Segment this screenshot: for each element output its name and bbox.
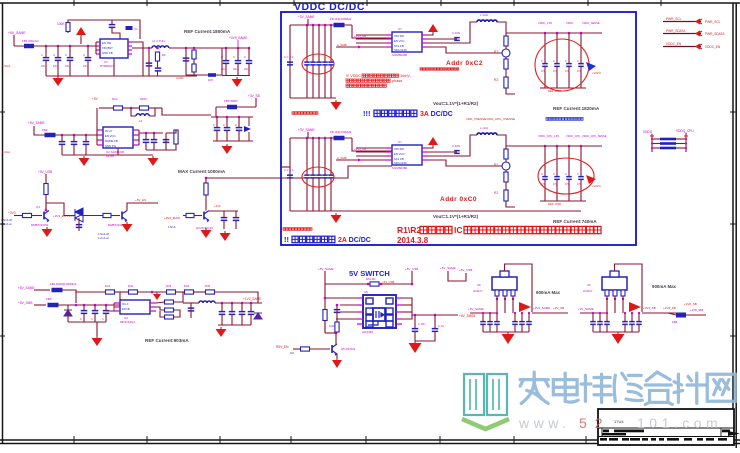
wire CVDDQ0 left [652,138,660,140]
transistor Q5 enable [332,344,337,356]
regulator U8 body (SOT-223) [492,271,517,290]
inductor L201 [136,114,149,116]
svg-text:U7: U7 [398,27,402,31]
wire D res row 5 [194,291,206,293]
wire en input [293,348,300,350]
label Cout0 2 [541,173,543,176]
wire U2 out bus [138,130,140,145]
label MAX current B [178,169,226,174]
capacitor C105 input [85,58,92,61]
capacitor Cout2 2 [566,177,572,180]
pin U1 left y47 [386,46,392,48]
capacitor Cout0 1 [542,64,548,67]
capacitor Cout1 2 [554,177,560,180]
junction 1 cap3 [324,24,327,27]
wire incap0 9 bot [592,324,594,332]
label C110 [221,55,223,59]
svg-text:EN FB: EN FB [122,307,130,311]
note addr 2 [440,196,477,203]
svg-text:REF Current:1820mA: REF Current:1820mA [553,106,600,111]
note sw blue [290,351,294,355]
capacitor Cout0 2 [542,177,548,180]
cjk note r1 line2 [346,79,390,82]
junction 2 cap3 [324,137,327,140]
resistor R462 [165,315,174,319]
label Cbst 1 [452,31,460,35]
wire FB return [194,74,222,76]
svg-text:EN VCC: EN VCC [394,39,405,43]
svg-text:A_SMB: A_SMB [337,43,347,47]
label Cout3 1 [577,60,579,63]
varistor VR 1 [502,49,510,57]
label R2 2 [494,191,498,195]
svg-text:C: C [553,60,555,63]
pin U2 right y39 [422,151,428,153]
wire 1 cap0 top [306,25,308,62]
label U2 refdes [106,150,125,154]
junction SW8 [335,332,338,335]
wire D gnd rail left [68,321,106,323]
svg-text:EN SW: EN SW [102,41,112,45]
junction C2a [205,177,208,180]
wire outcap2 2 bot [568,179,570,201]
pin U8 leg1 [495,290,499,296]
svg-text:AO4435: AO4435 [362,330,373,334]
wire incap2 8 top [496,313,498,322]
junction 2 cap4 [330,137,333,140]
capacitor Cin1 9 [597,322,603,325]
pin U4 right y303 [150,302,156,304]
wire outcap1 1 top [556,33,558,64]
wire 1 cap4 top [330,25,332,62]
wire 1 sda in [356,42,386,44]
label C111 [233,55,235,59]
net VDDQ_CPU label [676,129,694,133]
svg-text:L1 4.7UH: L1 4.7UH [152,39,165,43]
label C502 [418,322,425,326]
label AGND A [176,76,184,80]
ferrite bead FB101 [126,26,133,30]
label Cout0 1 [541,60,543,63]
wire outcap1 8 bot [521,324,523,332]
svg-text:PWR_SDATA: PWR_SDATA [705,32,725,36]
resistor R2 1 [504,59,508,69]
junction 2 cap0 [306,137,309,140]
wire 2 left rail [289,138,291,211]
title 5V SWITCH [349,269,390,278]
label R41 [105,284,111,288]
pin arrow EN 2 [358,159,362,162]
ferrite bead FB401 [52,288,63,293]
wire Q5 collector [335,333,337,345]
pin U1 left y43 [386,42,392,44]
svg-text:www.: www. [518,415,570,431]
ellipse marker output caps 2 [538,158,594,194]
pin U2 left y43 [386,155,392,157]
capacitor C103 input [55,58,62,61]
wire A bottom rail2 [143,75,197,77]
wire U8 output [532,312,568,314]
svg-text:Addr 0xC2: Addr 0xC2 [446,60,483,67]
svg-text:VDDC DC/DC: VDDC DC/DC [294,1,365,13]
ferrite bead FB402 [48,303,59,308]
net +3V3 EN label [8,211,16,215]
wire capA0 lower leg [45,60,47,76]
capacitor CVDDQ2 (bar) [660,147,676,150]
ground arrow Q2 [122,222,133,232]
cjk bottom left red note s1 [292,112,318,115]
wire capBc0 top [216,117,218,128]
svg-text:Q3 PDTC143: Q3 PDTC143 [196,226,213,230]
pin U1 right y46 [128,45,132,47]
wire capB2 bot [85,144,87,155]
wire R46c to cap [160,311,165,317]
label FB 2 [330,130,352,134]
wire 1 cap3 bot [324,65,326,98]
wire outcap0 2 top [544,146,546,177]
wire en base link [310,348,331,350]
junction A4 [87,45,90,48]
resistor R104 divider bottom [192,64,196,72]
label Cout1 2 [553,173,555,176]
junction A11 [248,47,251,50]
wire capB out1 bot [153,142,155,150]
label C111v [233,67,238,71]
label U1 pins in [102,41,112,45]
wire capBc1 top [226,117,228,128]
svg-text:+3V_SAME: +3V_SAME [298,128,315,132]
junction SW1 [367,283,370,286]
net output label 9 [643,306,656,310]
junction B3 [73,134,76,137]
resistor R502 on rail [323,310,327,321]
wire U4 sw to coil [183,302,199,304]
ferrite bead FB102 on input [24,44,34,49]
junction U8 leg1 [496,298,498,300]
watermark char zi [645,372,672,404]
wire capC20 bot [223,220,225,229]
wire sw left rail [324,271,326,333]
ferrite bead FB201 [45,133,56,138]
wire R503 top [336,319,338,322]
svg-text:FB 1K@100MHZ: FB 1K@100MHZ [330,17,352,21]
svg-text:0402: 0402 [140,97,147,101]
wire B out gnd [146,144,176,150]
label C112 [244,55,246,59]
wire U4 out1 [156,302,165,303]
svg-text:FB 1K@100MHZ: FB 1K@100MHZ [330,130,352,134]
wire divider 2 [505,146,507,149]
capacitor C400 [81,311,88,314]
resistor R305 top [204,183,208,195]
big red note ic [454,225,463,235]
wire incap0 8 top [482,313,484,322]
capacitor C220 cluster [214,128,221,131]
svg-text:R45: R45 [205,284,211,288]
junction 9 ic2 [606,312,608,314]
capacitor Cin2 2 [316,175,322,178]
pin U9 leg2 [613,290,617,296]
label Cout2v 1 [565,70,570,73]
label U4 pins [122,302,129,306]
title block bottom cells [600,438,727,441]
wire incap2 9 bot [606,324,608,332]
svg-text:100K: 100K [57,22,65,26]
label C112v [244,67,249,71]
svg-text:+1V8_SBF: +1V8_SBF [690,308,704,312]
wire capB out0 top [145,133,147,140]
transistor Q3 [204,211,209,223]
wire R46 link [174,292,184,302]
wire CVDDQ2 left [652,147,660,149]
pin U8 leg2 [503,290,507,296]
wire C501 legs [336,305,338,319]
svg-text:10U: 10U [41,64,46,68]
capacitor C102 input [43,58,50,61]
pin U1 left y50 [96,49,100,51]
probe arrow 1 [586,62,596,71]
wire gnd rail 8 [483,331,529,333]
wire capBc1 bot [226,130,228,141]
junction out 1 3 [580,32,583,35]
wire divider5 2 [506,201,515,207]
capacitor Cin0 2 [304,175,310,178]
junction D33 [250,302,253,305]
capacitor C411 out [219,312,226,315]
label U1 pins3 [394,44,404,48]
pin U1 right y39 [422,38,428,40]
label Cout3 2 [577,173,579,176]
wire capA3 lower leg [87,60,89,76]
junction SW6 [414,314,417,317]
pin U5 right y319 [396,318,402,320]
svg-text:R44: R44 [184,284,190,288]
pin U9 leg3 [621,290,625,296]
capacitor C212 [163,140,170,143]
svg-text:REF:1V05: REF:1V05 [548,202,561,206]
capacitor Cin0 9 [590,322,596,325]
svg-text:L 1UH: L 1UH [480,13,488,17]
junction B4 [85,134,88,137]
junction D11 [94,304,97,307]
label FB102 [22,39,40,43]
net +3V_SB label [248,94,260,98]
label R101 value [57,22,65,26]
junction out 1 2 [568,32,571,35]
svg-text:C: C [233,55,235,59]
pin U1 right y35 [422,34,428,36]
pin U5 right y312 [396,311,402,313]
note left edge current 1 [2,64,10,68]
ground arrow B left [79,156,90,166]
capacitor C414 out [248,312,255,315]
wire A out gnd rail [222,75,250,77]
pin U5 left y298 [357,297,363,299]
capacitor C402 [103,311,110,314]
svg-text:C: C [223,123,225,127]
label C110v [221,67,226,71]
transistor Q1 [44,211,49,223]
wire U9 input [580,312,607,314]
label R1 1 [494,50,498,54]
wire C2 caps rail [209,210,238,212]
wire capBc2 bot [238,130,240,141]
capacitor Cout2 9 [636,322,642,325]
wire D res row 2 [115,291,129,293]
U5 internal pad squares [366,298,393,327]
junction U9 leg3 [622,298,624,300]
svg-text:+1V8_SB: +1V8_SB [684,302,697,306]
wire outcap2 1 top [568,33,570,64]
svg-text:VDDQ_CPU: VDDQ_CPU [676,129,694,133]
junction D31 [231,302,234,305]
wire 2 cap0 bot [306,178,308,211]
wire capA0 upper leg [45,46,47,58]
wire R203 legs [166,130,176,133]
wire 1 cap4 bot [330,65,332,98]
pin arrow EN 1 [358,46,362,49]
svg-text:!!!: !!! [363,109,371,118]
note red 3 lines section 1 [346,74,361,78]
capacitor CVDDQ1 (bar) [660,142,676,145]
wire D out gnd rail [218,324,251,326]
junction 8 ic1 [489,312,491,314]
wire 2 cap1 top [312,138,314,175]
label U9 part [583,289,593,293]
pin U2 right y43 [422,155,428,157]
capacitor C211 out B [151,140,158,143]
resistor R201 [114,106,123,110]
svg-text:Vout=1.1V*(1+R1/R2): Vout=1.1V*(1+R1/R2) [433,101,479,106]
wire C108 legs [185,48,187,75]
wire bst cap 2 [428,151,457,153]
ground arrow C2 caps [220,231,231,241]
note C blue 2lines b [1,222,13,226]
ground arrow D left [92,336,103,346]
label R503 [329,324,335,328]
wire divider3 2 [505,170,507,172]
resistor R42 [129,290,138,294]
svg-text:900mA Max: 900mA Max [536,290,561,295]
label Q1 [36,205,40,209]
svg-text:47U: 47U [565,183,570,186]
capacitor Cout3 1 [578,64,584,67]
junction 1 cap1 [312,24,315,27]
junction Bc2 [238,116,241,119]
svg-text:MMBT2222W: MMBT2222W [31,223,48,227]
junction SW3 [411,283,414,286]
svg-text:IN LX: IN LX [105,129,112,133]
wire 2 input top [290,137,352,139]
resistor R202 [140,106,149,110]
wire B input rail [34,126,97,135]
wire coil B parallel [131,108,136,116]
wire 2 cap4 bot [330,178,332,211]
label caps 2 [284,168,294,172]
svg-text:LD1117: LD1117 [473,289,483,293]
label U1 pins4 [394,48,407,52]
resistor R2 2 [504,172,508,182]
pin U2 right y135 [133,134,139,136]
wire incap1 8 bot [489,324,491,332]
junction D2 [151,291,154,294]
wire sw outcap1 bot [414,331,416,341]
resistor R1 2 [504,149,508,159]
pin mark VDDQ b [684,135,688,137]
ground arrow Q1 [42,227,53,237]
net R5V_EN label [276,345,289,349]
wire B right label tick [255,98,257,107]
pin U4 left y307 [114,306,120,308]
wire 2 scl in [356,151,386,153]
svg-text:+1V2: +1V2 [214,204,221,208]
wire B fb right [149,107,162,109]
label U2 pins4 [105,144,116,148]
wire bst cap 1 [428,38,457,40]
wire CVDDQ2 right [676,147,686,149]
ground arrow Q5 [332,358,342,368]
wire 1 scl in [356,38,386,40]
wire capA1 upper leg [57,46,59,58]
wire VDDQ left [651,134,653,152]
label R102 [162,53,166,57]
watermark url text [518,415,722,431]
pin U5 left y312 [357,311,363,313]
net scl label 2 [354,147,366,151]
wire capB out1 top [153,133,155,140]
capacitor Cin1 8 [487,322,493,325]
svg-text:FB9: FB9 [672,320,678,324]
svg-text:+5V_SAME: +5V_SAME [18,286,35,290]
net +5V_SAME label D1 [18,286,35,290]
capacitor C410 [188,308,195,311]
note ref current 2 [553,219,597,224]
net VDDC_EN label left [666,42,682,46]
capacitor Cout1 9 [629,322,635,325]
wire capDo0 bot [221,314,223,325]
svg-text:+5V: +5V [92,97,99,101]
capacitor Cin4 1 [328,62,334,65]
capacitor C108 mid [183,58,190,61]
svg-text:REF Current:1800mA: REF Current:1800mA [184,29,231,34]
net EN label 1 [337,43,347,47]
svg-text:0.5mA: 0.5mA [2,64,10,68]
net out labels2 2 [566,134,580,138]
svg-text:1.2mA: 1.2mA [2,150,10,154]
label caps 1 [284,55,294,59]
wire R304 to Q3 [194,215,202,217]
svg-text:10U: 10U [53,64,58,68]
junction D12 [105,304,108,307]
svg-text:100K: 100K [329,324,335,328]
wire divider4 1 [505,69,507,77]
resistor R41 [106,290,115,294]
svg-text:47U: 47U [577,70,582,73]
note C2 blue [168,225,176,229]
note tiny mixed line [466,117,515,121]
svg-text:VDDC_CPU_1.8V: VDDC_CPU_1.8V [538,134,559,138]
wire outcap0 1 top [544,33,546,64]
wire U5 in4 [336,318,357,320]
svg-text:1K5: 1K5 [208,78,213,82]
capacitor C310 [221,218,228,221]
wire outcap0 9 bot [624,324,626,332]
wire outcap2 8 bot [528,324,530,332]
label FB202 [224,99,238,103]
svg-text:PWR_SCL: PWR_SCL [705,20,721,24]
label Cout0v 2 [541,183,546,186]
wire 1 cap2 top [318,25,320,62]
